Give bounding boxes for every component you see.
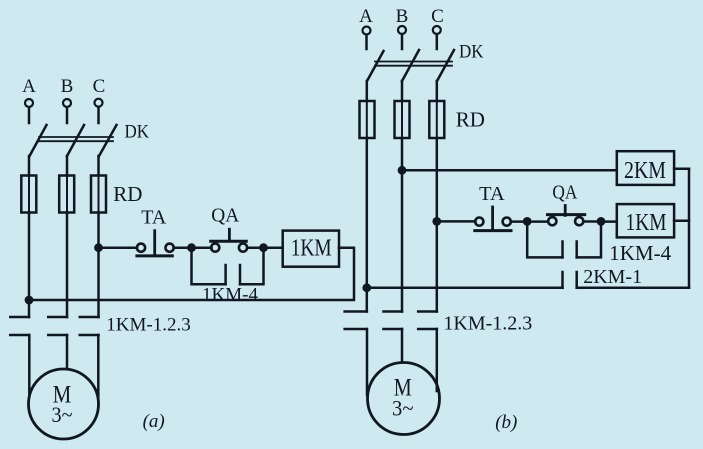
interlock contact 2KM-1 right tick (b) (575, 272, 578, 288)
switch DK linkage bar (b) (375, 62, 452, 66)
node junction return on pole A (a) (25, 296, 34, 305)
fuse RD pole B (a) (59, 176, 74, 213)
node junction after QA (b) (597, 217, 606, 226)
pushbutton QA NO contact right terminal (b) (575, 217, 583, 225)
pushbutton TA NC contact right terminal (b) (503, 218, 511, 226)
auxiliary contact 1KM-4 right tick (b) (575, 242, 578, 258)
wire pole A vertical (b) (366, 138, 369, 312)
main contact 1KM-2 upper tick (b) (384, 310, 403, 313)
wire contact to motor C (a) (97, 335, 100, 397)
svg-text:B: B (61, 76, 74, 97)
wire pole B to coil 2KM (b) (402, 169, 617, 172)
svg-text:1KM-4: 1KM-4 (202, 285, 258, 306)
main contact 1KM-1 lower tick (b) (345, 328, 367, 331)
auxiliary contact 1KM-4 branch right wire (b) (577, 222, 601, 258)
pushbutton TA bridge bar (b) (475, 229, 511, 232)
main contact 1KM-2 lower tick (a) (48, 334, 67, 337)
coil 2KM box (b) (617, 151, 674, 185)
wire blade-to-fuse C (b) (436, 81, 439, 101)
wire contact to motor A (b) (366, 329, 369, 395)
terminal A (b) (363, 27, 371, 35)
wire pole A vertical (a) (28, 213, 31, 318)
svg-text:1KM-1.2.3: 1KM-1.2.3 (443, 313, 532, 335)
pushbutton QA actuator stem (a) (228, 229, 231, 241)
svg-text:1KM-4: 1KM-4 (609, 241, 671, 265)
wire blade-to-fuse B (a) (66, 156, 69, 176)
wire node to coil 1KM (b) (601, 220, 617, 223)
main contact 1KM-2 lower tick (b) (384, 328, 403, 331)
wire node to QA (a) (192, 246, 212, 249)
switch DK blade A (b) (367, 51, 384, 81)
pushbutton QA NO contact right terminal (a) (239, 244, 247, 252)
svg-text:QA: QA (211, 205, 240, 227)
motor M 3~ circle (b) (368, 363, 440, 435)
terminal C (b) (433, 26, 441, 34)
wire QA to node (b) (584, 220, 602, 223)
svg-text:1KM-1.2.3: 1KM-1.2.3 (106, 315, 190, 336)
wire blade-to-fuse A (b) (366, 81, 369, 101)
svg-text:A: A (22, 76, 36, 97)
svg-text:3~: 3~ (392, 396, 414, 421)
auxiliary contact 1KM-4 branch right wire (a) (240, 248, 264, 285)
main contact 1KM-3 upper tick (a) (80, 316, 99, 319)
wire stub C (b) (436, 34, 439, 49)
svg-text:(b): (b) (495, 412, 517, 433)
switch DK blade B (a) (67, 125, 84, 156)
svg-text:B: B (396, 6, 409, 27)
pushbutton TA NC contact right terminal (a) (166, 244, 174, 252)
main contact 1KM-3 upper tick (b) (418, 310, 437, 313)
wire 2KM to right bus (b) (674, 168, 689, 171)
svg-text:TA: TA (141, 207, 167, 229)
svg-text:A: A (359, 6, 373, 27)
switch DK blade C (b) (437, 50, 454, 81)
pushbutton TA NC contact left terminal (b) (475, 218, 483, 226)
wire stub B (b) (401, 34, 404, 49)
node junction pole C control tap (b) (432, 217, 441, 226)
wire pole B vertical (a) (66, 213, 69, 318)
fuse RD pole C (b) (429, 101, 444, 138)
node junction before QA (b) (523, 217, 532, 226)
node junction before QA (a) (187, 243, 196, 252)
node junction pole B feed to 2KM (b) (398, 166, 407, 175)
wire blade-to-fuse C (a) (97, 156, 100, 176)
coil 1KM box (a) (283, 231, 339, 267)
wire contact to motor A (a) (28, 335, 31, 397)
svg-text:C: C (431, 6, 444, 27)
svg-text:TA: TA (479, 183, 505, 205)
wire coil to return corner (a) (29, 248, 354, 300)
wire blade-to-fuse B (b) (401, 81, 404, 101)
wire 1KM to right bus (b) (674, 220, 689, 223)
main contact 1KM-1 upper tick (a) (10, 316, 29, 319)
main contact 1KM-1 lower tick (a) (10, 334, 29, 337)
node junction pole C control tap (a) (94, 243, 103, 252)
svg-text:DK: DK (459, 42, 484, 63)
wire pole B vertical (b) (401, 138, 404, 312)
svg-text:(a): (a) (143, 411, 165, 432)
pushbutton QA NO contact left terminal (b) (548, 217, 556, 225)
wire node to coil 1KM (a) (264, 246, 283, 249)
pushbutton TA NC contact left terminal (a) (137, 244, 145, 252)
switch DK blade B (b) (402, 50, 419, 81)
switch DK linkage bar (a) (39, 137, 113, 141)
pushbutton QA NO contact left terminal (a) (211, 244, 219, 252)
svg-text:1KM: 1KM (626, 210, 667, 236)
wire contact to motor B (b) (401, 329, 404, 363)
svg-text:RD: RD (456, 108, 485, 132)
fuse RD pole B (b) (395, 101, 410, 138)
svg-text:2KM-1: 2KM-1 (583, 266, 642, 288)
wire stub A (b) (365, 35, 368, 49)
auxiliary contact 1KM-4 right tick (a) (239, 265, 242, 284)
pushbutton QA bridge bar (b) (548, 213, 585, 216)
terminal B (a) (63, 99, 71, 107)
svg-text:1KM: 1KM (291, 236, 332, 262)
wire QA to node (a) (247, 246, 263, 249)
fuse RD pole A (b) (360, 101, 375, 138)
pushbutton QA bridge bar (a) (211, 240, 247, 243)
wire node to QA (b) (527, 220, 548, 223)
pushbutton TA actuator stem (b) (491, 207, 494, 230)
wire pole C vertical (a) (97, 213, 100, 318)
svg-text:RD: RD (113, 182, 142, 206)
fuse RD pole C (a) (91, 176, 106, 213)
wire TA to node (a) (174, 246, 192, 249)
wire control line to TA (a) (99, 246, 138, 249)
wire blade-to-fuse A (a) (28, 156, 31, 176)
switch DK blade C (a) (99, 125, 117, 156)
motor M 3~ circle (a) (29, 369, 99, 439)
wire TA to node (b) (511, 220, 528, 223)
main contact 1KM-3 lower tick (b) (418, 328, 437, 331)
pushbutton TA bridge bar (a) (137, 254, 172, 257)
wire return line pole A to 2KM-1 contact (b) (367, 287, 563, 290)
wire 2KM-1 contact to right bus (b) (577, 287, 689, 290)
wire stub A (a) (28, 107, 31, 123)
wire control line to TA (b) (437, 220, 476, 223)
node junction after QA (a) (259, 243, 268, 252)
svg-text:DK: DK (125, 122, 150, 143)
svg-text:2KM: 2KM (624, 158, 666, 184)
auxiliary contact 1KM-4 left tick (b) (561, 242, 564, 258)
wire pole C vertical (b) (436, 138, 439, 312)
main contact 1KM-1 upper tick (b) (345, 310, 367, 313)
switch DK blade A (a) (30, 125, 47, 156)
terminal B (b) (398, 26, 406, 34)
svg-text:C: C (93, 76, 106, 97)
auxiliary contact 1KM-4 branch left wire (b) (527, 222, 562, 258)
pushbutton TA actuator stem (a) (153, 231, 156, 255)
auxiliary contact 1KM-4 left tick (a) (224, 265, 227, 284)
coil 1KM box (b) (617, 204, 674, 237)
pushbutton QA actuator stem (b) (564, 206, 567, 216)
wire contact to motor C (b) (436, 329, 439, 391)
svg-text:QA: QA (552, 182, 577, 204)
auxiliary contact 1KM-4 branch left wire (a) (192, 248, 226, 285)
wire stub B (a) (66, 107, 69, 123)
wire contact to motor B (a) (66, 335, 69, 369)
main contact 1KM-3 lower tick (a) (80, 334, 99, 337)
main contact 1KM-2 upper tick (a) (48, 316, 67, 319)
node junction return on pole A (b) (362, 283, 371, 292)
terminal A (a) (25, 99, 33, 107)
terminal C (a) (95, 99, 103, 107)
fuse RD pole A (a) (21, 176, 36, 213)
svg-text:3~: 3~ (52, 402, 73, 427)
wire stub C (a) (97, 107, 100, 123)
wire right bus vertical (b) (688, 169, 691, 288)
interlock contact 2KM-1 left tick (b) (561, 272, 564, 288)
